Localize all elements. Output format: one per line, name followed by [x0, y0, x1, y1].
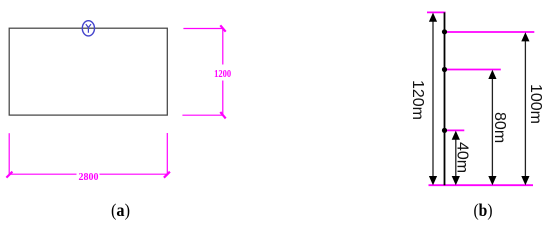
svg-text:2800: 2800	[79, 171, 99, 183]
svg-text:100m: 100m	[527, 84, 544, 124]
svg-text:(b): (b)	[474, 200, 493, 221]
svg-text:(a): (a)	[111, 200, 130, 221]
svg-text:40m: 40m	[454, 142, 471, 173]
svg-text:1200: 1200	[214, 68, 231, 80]
svg-text:120m: 120m	[409, 80, 426, 120]
svg-text:80m: 80m	[491, 112, 508, 143]
